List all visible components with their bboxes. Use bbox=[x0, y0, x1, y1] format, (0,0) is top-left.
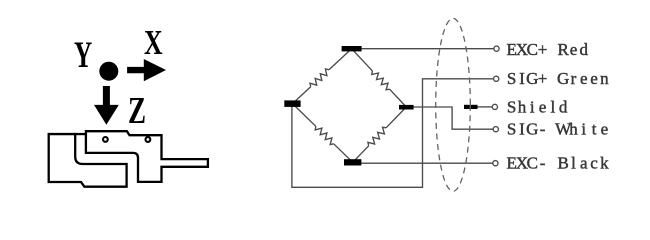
svg-text:Shield: Shield bbox=[507, 97, 568, 116]
svg-text:SIG- White: SIG- White bbox=[507, 120, 608, 139]
svg-text:SIG+ Green: SIG+ Green bbox=[507, 69, 609, 88]
svg-text:EXC- Black: EXC- Black bbox=[507, 154, 610, 173]
svg-text:EXC+ Red: EXC+ Red bbox=[507, 40, 589, 59]
